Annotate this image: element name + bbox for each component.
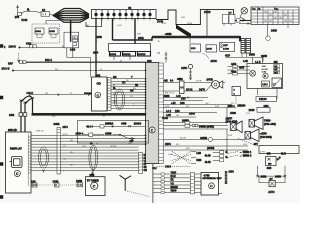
svg-text:24/7B: 24/7B <box>196 80 202 82</box>
bold label stack <box>262 65 268 74</box>
page edge connector 2 (display) <box>0 163 3 166</box>
connector 3/AF <box>8 61 26 66</box>
svg-text:23414: 23414 <box>134 121 142 125</box>
wire connector to bundle <box>50 14 53 15</box>
svg-text:24/28: 24/28 <box>249 110 255 112</box>
svg-text:+6/79: +6/79 <box>260 132 267 136</box>
DISPLAY unit box <box>6 130 32 193</box>
svg-text:LM8: LM8 <box>196 153 201 155</box>
connector strip right of wires <box>139 153 149 174</box>
svg-text:16/8: 16/8 <box>147 61 152 63</box>
dashed diagonals bottom mid <box>157 151 191 167</box>
svg-text:1/C04: 1/C04 <box>35 31 41 33</box>
speaker left 8/5F <box>226 117 243 133</box>
CD pin strip <box>108 78 112 111</box>
svg-text:25/284: 25/284 <box>237 104 245 108</box>
svg-text:Y/GR: Y/GR <box>171 172 177 174</box>
svg-text:1/38: 1/38 <box>180 103 185 105</box>
svg-text:2x8: 2x8 <box>274 66 277 68</box>
pin block 6/DK10 <box>123 52 136 57</box>
bold wire 3/AF to radio <box>26 61 146 63</box>
svg-text:BL/GR: BL/GR <box>180 138 187 140</box>
wires to speakers joins <box>226 108 228 122</box>
svg-text:VO: VO <box>171 183 175 185</box>
svg-text:9/9B 2/D: 9/9B 2/D <box>8 130 17 132</box>
svg-text:4/DF: 4/DF <box>225 56 231 58</box>
svg-text:+4/2: +4/2 <box>171 103 176 105</box>
bulb symbol P <box>250 70 256 76</box>
harness corner down <box>239 36 241 42</box>
wires from relay box down <box>67 46 91 78</box>
connector 4881 <box>177 77 184 94</box>
wire with cross marks <box>237 19 253 25</box>
svg-text:C48 H: C48 H <box>27 93 34 95</box>
speaker mid2 <box>245 129 272 142</box>
bottom pin column <box>190 173 194 194</box>
AUTO antenna unit <box>259 176 285 194</box>
connector strip 2438 mid <box>54 122 69 174</box>
svg-text:23/94: 23/94 <box>165 144 171 146</box>
connector 12/8 <box>31 181 37 187</box>
svg-text:C: C <box>93 184 96 188</box>
svg-text:49.4B: 49.4B <box>205 156 211 158</box>
svg-text:6/DK18: 6/DK18 <box>138 54 146 56</box>
fan motor symbol M1 <box>240 8 248 21</box>
wire stub right <box>287 25 289 29</box>
svg-text:24/DC: 24/DC <box>211 61 218 63</box>
CPU box <box>262 81 270 87</box>
svg-text:GR/SB: GR/SB <box>110 146 117 148</box>
fuse F1 15/8 <box>15 12 28 22</box>
radio right wires group A <box>163 105 236 108</box>
wedge join to harness bar <box>176 25 191 39</box>
thick wire horizontal y40 <box>113 37 153 40</box>
svg-text:SB/W: SB/W <box>171 191 178 193</box>
horn tweeter 24TB <box>207 78 223 89</box>
svg-text:VO: VO <box>63 146 66 148</box>
svg-text:24/78: 24/78 <box>199 89 205 91</box>
fuse feed arrow <box>17 6 19 12</box>
svg-text:49.4 4: 49.4 4 <box>86 126 93 128</box>
wire radio to 4881 <box>163 83 179 92</box>
radio wire 4.4B <box>163 116 196 118</box>
svg-text:3400: 3400 <box>26 43 32 45</box>
option table <box>251 7 299 25</box>
page edge connector 2 (mid) <box>0 96 3 99</box>
svg-text:2438: 2438 <box>9 115 15 117</box>
svg-text:4881: 4881 <box>177 77 183 81</box>
svg-text:23/88: 23/88 <box>164 96 170 98</box>
wires strip to right <box>61 135 146 170</box>
svg-text:2482: 2482 <box>261 174 267 178</box>
svg-text:48B: 48B <box>274 62 279 64</box>
svg-text:BL/8: BL/8 <box>281 154 286 156</box>
twisted loop ellipse display bus <box>39 147 49 168</box>
svg-text:2/7HB: 2/7HB <box>204 12 211 14</box>
connector band 7/8 <box>92 8 157 19</box>
svg-text:A/R 4.572: A/R 4.572 <box>165 92 175 95</box>
inline connector S1 <box>41 10 50 16</box>
connector 27/48 <box>53 181 60 187</box>
climate control unit box <box>247 64 283 89</box>
svg-text:24/9C: 24/9C <box>181 68 187 70</box>
wire 4881 to horn <box>184 82 225 84</box>
4 PIN unit box <box>201 172 222 195</box>
svg-text:3/AF: 3/AF <box>8 63 13 66</box>
wire 2AC4 <box>12 70 13 71</box>
svg-text:1/C07: 1/C07 <box>207 49 213 51</box>
CD wires to radio <box>111 79 146 109</box>
svg-text:K: K <box>264 74 266 78</box>
display harness thick pair <box>21 96 34 133</box>
band plug tails <box>96 19 150 21</box>
antenna <box>120 175 132 190</box>
display circle C <box>14 170 20 176</box>
svg-text:8/8: 8/8 <box>267 152 271 156</box>
wire C8H to CD <box>29 94 95 96</box>
climate input wires <box>228 63 251 75</box>
climate box bottom wires <box>258 89 278 100</box>
svg-text:12/9B: 12/9B <box>76 181 82 183</box>
svg-text:4 PIN: 4 PIN <box>260 152 266 154</box>
relay unit 2/8 bottom right <box>266 152 287 170</box>
svg-text:24TB: 24TB <box>207 78 213 82</box>
svg-text:→ W/8B 3: → W/8B 3 <box>239 153 252 157</box>
dotted link display to TV <box>37 184 77 186</box>
svg-text:24/88: 24/88 <box>271 31 277 33</box>
svg-text:A/D4: A/D4 <box>93 52 99 55</box>
page edge connector 2 (top) <box>0 45 3 48</box>
svg-text:2/309: 2/309 <box>189 114 195 116</box>
small motor symbol <box>266 36 270 40</box>
relay 1/C05 <box>49 28 58 38</box>
box 25/284 <box>237 104 270 113</box>
ignition relay box left <box>64 21 79 52</box>
CD feed stub <box>84 92 92 94</box>
vertical stub above radio <box>158 52 168 63</box>
svg-text:SB: SB <box>135 85 139 87</box>
amplifier box bottom right <box>238 139 299 154</box>
svg-text:4.4 B: 4.4 B <box>255 62 261 64</box>
svg-text:44.48: 44.48 <box>162 118 168 120</box>
thick vertical wire x112 <box>112 19 114 41</box>
sensor box with diagonal <box>272 78 282 88</box>
connector 3400 <box>26 43 36 48</box>
relay 1/C04 <box>35 28 44 38</box>
svg-text:VY: VY <box>229 13 233 15</box>
vertical wire band to CD <box>95 19 97 78</box>
wire bundle eye shape <box>53 9 89 23</box>
svg-text:TV TUNER: TV TUNER <box>87 179 99 182</box>
svg-text:48/7: 48/7 <box>254 144 259 146</box>
svg-text:26/9B: 26/9B <box>261 56 267 58</box>
svg-text:CPU: CPU <box>262 84 267 87</box>
svg-text:≡3088: ≡3088 <box>165 33 172 36</box>
connector 3/4P <box>232 87 241 105</box>
main harness bar top <box>152 36 240 38</box>
climate feed verticals <box>253 57 263 63</box>
box 1/C08 left <box>220 42 235 51</box>
svg-text:12/8: 12/8 <box>31 181 36 183</box>
svg-text:AUTO: AUTO <box>268 191 275 194</box>
svg-text:2/491: 2/491 <box>138 38 144 40</box>
svg-text:24/8: 24/8 <box>181 99 186 101</box>
svg-text:24/86: 24/86 <box>96 37 102 39</box>
svg-text:(23/88): (23/88) <box>207 148 215 150</box>
twisted loop ellipse mid bus <box>89 145 98 170</box>
node dot <box>19 47 20 48</box>
svg-text:(4/40 9005): (4/40 9005) <box>260 137 272 139</box>
label right of 4 PIN box <box>219 193 223 195</box>
svg-text:1/C08: 1/C08 <box>223 49 230 51</box>
bulb symbol K <box>263 73 268 78</box>
svg-text:A/D8: A/D8 <box>231 63 237 66</box>
radio left pin marks <box>145 62 147 144</box>
svg-text:2AC4 B: 2AC4 B <box>2 68 10 71</box>
radio wires to speaker L <box>163 123 228 130</box>
svg-text:4.4B: 4.4B <box>243 61 248 63</box>
svg-text:Con: Con <box>252 9 256 11</box>
svg-text:6/9B: 6/9B <box>96 75 101 77</box>
connector pair 2438 on display harness <box>9 113 27 117</box>
TV tuner circle C <box>91 182 98 189</box>
dashed relay box housing <box>32 24 60 43</box>
wire label texture group <box>36 17 266 172</box>
svg-text:24F4: 24F4 <box>63 127 69 129</box>
svg-text:GN: GN <box>144 170 148 172</box>
svg-text:49.4B: 49.4B <box>205 162 211 164</box>
svg-text:VO: VO <box>130 96 133 98</box>
CD changer unit 6/9B <box>92 75 108 111</box>
svg-text:BL/R: BL/R <box>63 134 68 136</box>
svg-text:24/9B: 24/9B <box>200 136 207 140</box>
resistor pair symbol <box>192 124 195 127</box>
svg-text:5C4B: 5C4B <box>22 20 28 22</box>
svg-text:4/DF: 4/DF <box>223 45 228 47</box>
connector 24/9C <box>181 64 192 80</box>
harness riser to display bend <box>29 96 33 114</box>
svg-text:1HB: 1HB <box>85 25 90 27</box>
arc link to climate <box>203 54 218 64</box>
wires below pin blocks <box>114 56 130 60</box>
page edge connector 2 (bottom) <box>0 196 3 199</box>
svg-text:9/9B 2/D: 9/9B 2/D <box>36 131 44 133</box>
boxed label stack right <box>274 65 280 75</box>
svg-text:24/9B (24/B): 24/9B (24/B) <box>199 125 214 129</box>
display screen symbol <box>10 157 23 168</box>
svg-text:24/86: 24/86 <box>187 23 193 25</box>
main harness bar lower <box>32 113 146 116</box>
connector strip 2493 <box>225 171 235 184</box>
svg-text:BN/GR: BN/GR <box>171 187 179 189</box>
pin block 6/DK18 <box>138 52 151 57</box>
svg-text:DIFFERENTIAL TEST: DIFFERENTIAL TEST <box>203 177 223 180</box>
svg-text:WH: WH <box>113 101 117 103</box>
svg-text:23/84 4: 23/84 4 <box>76 134 84 136</box>
svg-text:2309 4: 2309 4 <box>228 106 236 108</box>
harness frame box mid <box>78 121 149 144</box>
svg-text:1/38: 1/38 <box>175 111 180 113</box>
radio wires bottom <box>163 146 248 150</box>
TV tuner left connector <box>76 181 83 187</box>
svg-text:4/309: 4/309 <box>230 113 236 115</box>
frame wire row1 <box>93 125 146 127</box>
radio wire 24/98 <box>163 139 208 141</box>
connector ladders right top <box>241 39 251 54</box>
radio lower aux rows <box>163 96 208 101</box>
radio unit 16/8 tall box <box>146 61 159 164</box>
twisted bundle ellipse <box>114 89 124 110</box>
pin block 6/DK3 <box>110 52 121 57</box>
inline connector boxes <box>185 121 190 124</box>
wire fuse to inline connector <box>21 11 41 13</box>
wire 2482-2483 <box>256 166 286 179</box>
unit box 2/8 <box>109 44 151 52</box>
svg-text:GN: GN <box>130 91 134 93</box>
svg-text:4.4 2: 4.4 2 <box>166 111 172 113</box>
TV tuner box <box>86 175 106 195</box>
three boxes under bar <box>190 38 217 52</box>
speaker mid 74/09 <box>249 117 276 130</box>
svg-text:A/D2: A/D2 <box>231 70 237 73</box>
svg-text:A/D8: A/D8 <box>239 67 245 70</box>
svg-text:6/DK3: 6/DK3 <box>110 54 117 56</box>
bottom wires table <box>153 164 191 204</box>
svg-text:24M: 24M <box>262 65 266 68</box>
wire 2248B <box>20 47 68 49</box>
svg-text:19/88: 19/88 <box>105 131 112 135</box>
svg-text:4/2B: 4/2B <box>165 106 170 108</box>
CD circle C <box>95 92 101 98</box>
svg-text:BL/R: BL/R <box>171 176 176 178</box>
svg-text:4.48: 4.48 <box>176 96 181 98</box>
wire band to right with square bumps <box>156 9 252 24</box>
band pin plugs <box>95 10 152 19</box>
svg-text:9/88: 9/88 <box>267 168 272 170</box>
svg-text:1/C05: 1/C05 <box>49 31 55 33</box>
cross marks on pair <box>20 100 27 104</box>
wire from table down <box>266 25 268 37</box>
bottom right dashed to arrows <box>228 152 238 158</box>
4 PIN circle C <box>209 183 215 189</box>
svg-text:27/48: 27/48 <box>53 181 59 183</box>
svg-text:RM8: RM8 <box>196 160 202 162</box>
svg-text:2438: 2438 <box>54 122 60 126</box>
svg-text:1 HB: 1 HB <box>117 25 122 27</box>
radio aux row <box>163 112 217 114</box>
svg-text:→ W/8B 1: → W/8B 1 <box>239 150 252 154</box>
svg-text:2483: 2483 <box>275 174 281 178</box>
svg-text:2248 B: 2248 B <box>9 46 17 48</box>
svg-text:16/7F: 16/7F <box>226 117 233 121</box>
dashed antenna lead <box>18 53 20 61</box>
svg-text:A/B: A/B <box>164 80 168 83</box>
svg-text:DISPLAY: DISPLAY <box>10 147 22 151</box>
svg-text:6/DK10: 6/DK10 <box>123 54 131 56</box>
display output wires <box>31 135 57 170</box>
wires ladder down to climate box <box>242 53 247 57</box>
svg-text:VO: VO <box>122 82 126 84</box>
wire relay box top to band area <box>46 21 60 25</box>
vertical wire short <box>86 19 102 27</box>
display pin strip <box>28 134 31 187</box>
svg-text:(4/40 +008): (4/40 +008) <box>264 124 276 126</box>
svg-text:AC4M: AC4M <box>262 68 268 71</box>
relay boxes VY <box>223 13 236 26</box>
svg-text:74/09: 74/09 <box>264 119 271 123</box>
svg-text:SB: SB <box>144 167 148 169</box>
svg-text:D/C41: D/C41 <box>186 89 193 91</box>
svg-text:BK: BK <box>171 180 175 182</box>
svg-text:2481: 2481 <box>264 106 270 108</box>
radio pin strip <box>159 63 163 164</box>
vertical from top wire to bar <box>206 9 208 35</box>
svg-text:2412C: 2412C <box>259 97 267 101</box>
svg-text:C4C4: C4C4 <box>165 167 172 169</box>
svg-text:4.4B: 4.4B <box>166 115 171 117</box>
label 2412C <box>256 97 277 102</box>
wire y57 right <box>226 57 264 62</box>
radio circle C <box>149 127 155 133</box>
thick vertical wire x135 <box>134 19 136 44</box>
svg-text:23/88A: 23/88A <box>105 122 113 126</box>
svg-text:24P: 24P <box>130 141 135 143</box>
svg-text:24/88: 24/88 <box>249 55 255 57</box>
svg-text:2493: 2493 <box>229 172 235 174</box>
svg-text:94/8: 94/8 <box>121 121 127 125</box>
